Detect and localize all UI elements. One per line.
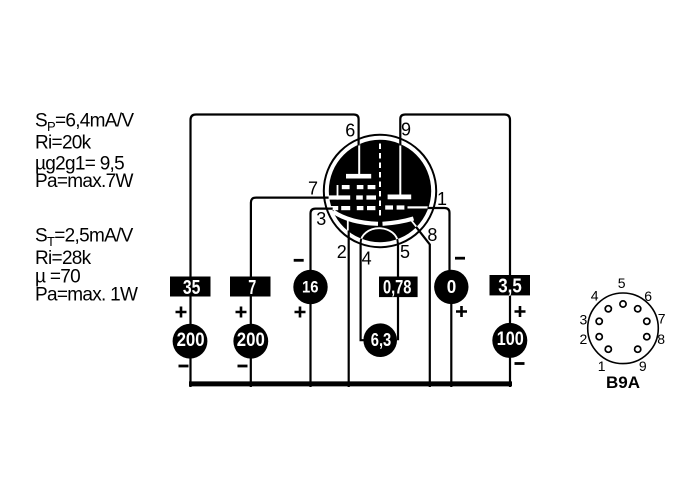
plus mark below 0 — [456, 306, 467, 317]
svg-text:3: 3 — [580, 312, 588, 328]
B9A pin 7 — [644, 318, 650, 324]
B9A pin 1 — [605, 346, 611, 352]
wire pin 9 to anode supply right — [400, 115, 510, 276]
triode anode plate — [388, 143, 412, 199]
triode cathode — [383, 219, 414, 224]
B9A pin 9 — [635, 346, 641, 352]
wire pin 2 — [348, 231, 350, 388]
svg-text:3,5: 3,5 — [498, 276, 522, 298]
svg-text:200: 200 — [237, 330, 265, 351]
svg-text:8: 8 — [657, 331, 665, 347]
svg-text:7: 7 — [658, 310, 666, 326]
voltage meter 6,3 — [363, 323, 397, 357]
svg-text:9: 9 — [401, 120, 411, 140]
wire pin 3 — [311, 209, 333, 270]
voltage meter 16 — [293, 270, 327, 304]
current box 35 — [170, 277, 211, 300]
svg-text:35: 35 — [183, 277, 201, 299]
minus mark chain 35 — [179, 365, 189, 368]
wire pin 8 — [416, 227, 430, 387]
B9A pin 6 — [635, 306, 641, 312]
minus mark above 0 — [455, 257, 465, 260]
svg-text:200: 200 — [177, 330, 205, 351]
svg-text:1: 1 — [437, 189, 447, 209]
minus mark above 16 — [294, 259, 304, 262]
B9A base outline — [588, 293, 659, 364]
heater — [361, 228, 398, 243]
svg-text:3: 3 — [316, 209, 326, 229]
current box 3,5 — [490, 275, 531, 298]
svg-text:16: 16 — [302, 278, 319, 297]
svg-text:100: 100 — [497, 329, 524, 350]
svg-text:1: 1 — [598, 358, 606, 374]
B9A pin 2 — [596, 334, 602, 340]
B9A pin 3 — [596, 318, 602, 324]
wire below meter 16 — [309, 303, 311, 387]
voltage meter 100 — [492, 323, 527, 358]
pentode cathode — [333, 212, 378, 224]
wire pin 4 heater — [361, 243, 364, 341]
wire box7 to meter 200 — [250, 296, 252, 387]
B9A pin 5 — [620, 301, 626, 307]
wire box3,5 to meter 100 — [509, 295, 511, 387]
svg-text:6: 6 — [345, 120, 355, 140]
triode grid row — [385, 205, 428, 209]
pentode grid g1 row — [329, 206, 375, 210]
svg-text:4: 4 — [591, 288, 599, 304]
svg-text:Pa=max.7W: Pa=max.7W — [35, 171, 133, 192]
svg-text:5: 5 — [400, 242, 410, 262]
svg-text:2: 2 — [580, 331, 588, 347]
plus mark chain 3,5 — [515, 306, 526, 317]
svg-text:6: 6 — [644, 288, 652, 304]
svg-text:0: 0 — [447, 277, 457, 297]
svg-text:4: 4 — [362, 248, 372, 268]
B9A pin 4 — [605, 306, 611, 312]
svg-text:9: 9 — [639, 358, 647, 374]
svg-text:6,3: 6,3 — [371, 330, 392, 350]
pentode grid g3 row — [337, 185, 376, 200]
svg-text:8: 8 — [427, 225, 437, 245]
pentode grid g2 row — [329, 195, 376, 199]
svg-text:Ri=20k: Ri=20k — [35, 133, 92, 154]
voltage meter 0 — [434, 270, 468, 304]
B9A pin 8 — [644, 334, 650, 340]
wire below meter 0 — [450, 304, 452, 388]
svg-text:7: 7 — [248, 277, 256, 299]
svg-text:0,78: 0,78 — [383, 278, 412, 299]
plus mark below 16 — [295, 307, 306, 318]
plus mark chain 35 — [176, 307, 187, 318]
wire pin 7 — [251, 198, 329, 277]
svg-text:2: 2 — [337, 242, 347, 262]
current box 0,78 — [379, 277, 418, 299]
tube V1 envelope — [324, 135, 436, 247]
svg-text:Pa=max. 1W: Pa=max. 1W — [35, 285, 138, 306]
tube internal shield dashed line — [379, 144, 381, 219]
wire pin 6 to anode supply left — [191, 115, 359, 277]
pentode cathode lead pin 2 — [347, 221, 349, 232]
svg-text:B9A: B9A — [606, 373, 640, 392]
plus mark chain 7 — [236, 307, 247, 318]
svg-text:5: 5 — [618, 275, 626, 291]
svg-text:7: 7 — [308, 178, 318, 198]
triode cathode lead pin 8 — [411, 220, 418, 229]
wire pin 5 heater — [397, 243, 399, 341]
minus mark chain 7 — [238, 365, 248, 368]
pentode anode plate — [346, 143, 371, 179]
wire pin 1 — [428, 208, 450, 270]
current box 7 — [230, 277, 271, 300]
wire box35 to meter 200 — [189, 296, 191, 387]
minus mark chain 100 — [515, 362, 525, 365]
voltage meter 200 left — [173, 324, 208, 359]
voltage meter 200 mid — [233, 324, 268, 359]
ground bus — [189, 381, 512, 386]
